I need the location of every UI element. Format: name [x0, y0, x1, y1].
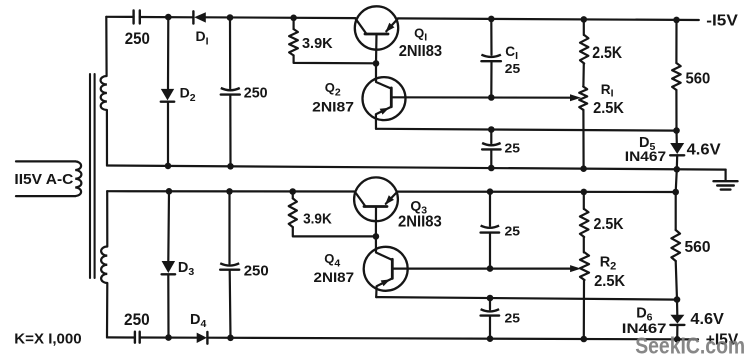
node 191-rail / 3.9K branch [289, 188, 296, 195]
svg-text:560: 560 [686, 71, 711, 88]
node 191-rail / 560 link [672, 189, 679, 196]
node ground rail / D5 [674, 166, 681, 173]
label 4.6V (D5) [687, 142, 722, 159]
svg-text:4.6V: 4.6V [690, 311, 724, 328]
wire Q4 collector to R2 wiper [392, 265, 581, 272]
primary winding lead (top) [16, 160, 75, 162]
wire 191-rail (right of Q3) [398, 191, 676, 194]
watermark SeekIC.com [635, 333, 745, 359]
wire 250-cap branch lower (lower lead) [229, 271, 232, 338]
transistor Q2 base lead [376, 63, 391, 88]
wire 25-cap lower lead [490, 150, 492, 168]
label 25 (bottom half upper) [505, 224, 521, 239]
label 560 (bottom) [685, 239, 711, 256]
label R1 [601, 82, 614, 100]
svg-text:QI: QI [414, 26, 427, 44]
node base junction Q3/Q4 [373, 233, 380, 240]
diode D2 [161, 89, 174, 102]
svg-text:SeekIC.com: SeekIC.com [635, 333, 745, 359]
transistor Q3 emitter lead [385, 192, 397, 205]
wire 25-cap lower lead (bottom half) [489, 233, 491, 268]
svg-text:2NI87: 2NI87 [314, 270, 355, 285]
label D5 [639, 135, 655, 153]
svg-text:250: 250 [244, 263, 269, 280]
node ground rail / D2 [165, 163, 172, 170]
label 1N467 (D6) [622, 321, 667, 336]
transistor Q4 emitter lead [376, 278, 392, 297]
svg-text:D2: D2 [180, 85, 196, 104]
transistor Q1 circle [355, 6, 398, 49]
node emitter rail / D6 [674, 296, 681, 303]
wire ground rail (top half) [107, 166, 726, 170]
resistor 560 (bottom) [671, 230, 680, 261]
diode D1 [193, 11, 205, 23]
transistor Q1 base lead [375, 34, 378, 63]
wire between 2.5K and R1 [582, 64, 585, 87]
svg-text:250: 250 [124, 310, 150, 329]
transistor Q2 base bar [390, 88, 393, 107]
wire D6 lower lead [676, 325, 678, 339]
wire 250-cap branch (upper) [229, 18, 231, 89]
wire secondary-bottom to bottom rail [106, 283, 109, 337]
wire R2 lower lead [583, 280, 585, 339]
label 4.6V (D6) [690, 311, 724, 328]
wire secondary-top to ground rail [106, 110, 108, 166]
transformer secondary winding (bottom) [101, 247, 107, 284]
transistor Q4 base lead [376, 236, 392, 259]
wire D3 branch (upper) [167, 191, 170, 261]
wire top rail (Q1 to -15V) [398, 18, 699, 20]
wire Q2 collector to R1 wiper [391, 94, 581, 101]
node 191-rail / 25-cap branch [487, 188, 494, 195]
wire Q4 emitter rail [376, 297, 677, 300]
wire D2 branch (lower) [167, 103, 169, 166]
node top rail / 560 branch [673, 17, 680, 24]
potentiometer R1 [579, 87, 587, 110]
ground symbol [714, 170, 738, 190]
label D6 [636, 306, 652, 324]
diode D3 [162, 261, 176, 274]
svg-text:25: 25 [505, 141, 521, 156]
wire secondary-top to top rail [105, 17, 107, 76]
label Q2 [325, 80, 341, 98]
svg-text:2.5K: 2.5K [592, 44, 622, 62]
node emitter rail / D5 [673, 127, 680, 134]
wire R1 lower lead [582, 110, 584, 169]
wire 25-cap-2 upper lead [489, 298, 491, 309]
label 1N467 (D5) [625, 149, 666, 164]
wire 25-cap upper lead [490, 130, 492, 144]
svg-text:D3: D3 [178, 260, 194, 278]
wire bottom rail (left of C) [107, 336, 135, 338]
label Q1 [414, 26, 427, 44]
wire 560 lower lead [675, 90, 677, 131]
svg-text:R2: R2 [600, 255, 617, 273]
svg-text:560: 560 [685, 239, 711, 256]
wire C1 lower lead [490, 62, 492, 98]
label D3 [178, 260, 194, 278]
svg-text:-I5V: -I5V [706, 13, 738, 30]
node emitter rail / 25-cap [488, 126, 495, 133]
svg-text:25: 25 [505, 224, 521, 239]
label 250 (filter, bottom) [244, 263, 269, 280]
transistor Q3 base lead [375, 207, 377, 237]
node top rail / C1 branch [488, 16, 495, 23]
transformer primary coil [75, 161, 81, 196]
transistor Q4 circle [364, 247, 408, 291]
svg-text:Q4: Q4 [324, 251, 340, 269]
primary winding lead (bottom) [16, 195, 75, 197]
wire top rail (C to D1) [140, 16, 194, 18]
svg-text:DI: DI [196, 28, 209, 47]
label R2 [600, 255, 617, 273]
transistor Q4 base bar [391, 259, 394, 278]
node base junction Q1/Q2 [373, 60, 380, 67]
svg-text:3.9K: 3.9K [303, 212, 332, 228]
resistor 560 (top) [672, 63, 681, 90]
node 191-rail / 250 branch [226, 188, 233, 195]
wire bottom rail (C to D3 node) [140, 336, 197, 338]
wire Q2 emitter rail [376, 129, 677, 131]
transistor Q1 emitter lead [386, 19, 398, 32]
capacitor 250 (series, bottom-left) [135, 332, 140, 343]
label 2N1183 (Q1) [399, 43, 443, 60]
resistor 3.9K (top) [289, 29, 298, 55]
label 250 (bottom-left) [124, 310, 150, 329]
resistor 3.9K (bottom) [289, 198, 297, 227]
label D4 [190, 312, 206, 330]
wire 25-cap-2 lower lead [489, 316, 491, 339]
wire 191-rail (left of Q3) [107, 190, 354, 193]
svg-text:2.5K: 2.5K [594, 273, 625, 290]
node top rail / 250 branch [227, 14, 234, 21]
svg-text:IN467: IN467 [625, 149, 666, 164]
label 2N187 (Q2) [312, 99, 354, 114]
wire 250-cap branch (lower) [229, 96, 231, 167]
node bottom rail / D3 [165, 334, 172, 341]
resistor 2.5K (upper, bottom half) [580, 209, 589, 237]
label 2.5K (R1) [593, 100, 624, 117]
transistor Q2 emitter lead [376, 107, 391, 129]
capacitor 250 (filter, top) [221, 88, 240, 95]
resistor 2.5K (upper, top half) [580, 35, 588, 64]
svg-text:K=X I,000: K=X I,000 [14, 330, 81, 347]
node top rail / 3.9K branch [290, 14, 297, 21]
label K=X 1,000 [14, 330, 81, 347]
svg-text:RI: RI [601, 82, 614, 100]
transformer core [90, 74, 95, 278]
label 250 (top-left) [125, 29, 150, 48]
wire between 2.5K and R2 [583, 237, 585, 252]
wire 2.5K upper lead (bottom) [583, 192, 585, 209]
label 3.9K (top) [302, 36, 333, 52]
svg-text:250: 250 [125, 29, 150, 48]
svg-text:4.6V: 4.6V [687, 142, 722, 159]
node ground rail / 25-cap [488, 165, 495, 172]
svg-text:II5V A-C: II5V A-C [14, 172, 73, 188]
wire 25-cap upper lead (bottom half) [489, 192, 491, 226]
wire top rail (D1 to Q1) [206, 16, 355, 19]
svg-text:2NI87: 2NI87 [312, 99, 354, 114]
svg-text:25: 25 [505, 311, 521, 326]
potentiometer R2 [580, 252, 589, 280]
svg-text:25: 25 [505, 61, 520, 76]
label 2.5K (upper, bottom half) [594, 216, 624, 233]
wire bottom rail (D4 to +15V) [207, 338, 698, 340]
wire 560 upper lead (bottom) [675, 192, 677, 230]
node collector line / 25-cap (bottom) [487, 265, 494, 272]
label +15V output [706, 332, 739, 349]
wire 3.9K top lead [293, 18, 295, 29]
node top rail / 2.5K branch [581, 16, 588, 23]
transistor Q2 circle [363, 77, 406, 120]
node bottom rail / D6 [674, 336, 681, 343]
transistor Q3 circle [354, 177, 398, 221]
wire 3.9K to base node [294, 55, 376, 63]
label 25 (top half) [505, 141, 521, 156]
wire D3 branch (lower) [167, 275, 169, 338]
wire D2 branch (upper) [167, 17, 170, 88]
transformer secondary winding (top) [101, 76, 107, 110]
wire 3.9K bottom upper lead [292, 192, 294, 199]
label 3.9K (bottom) [303, 212, 332, 228]
label 250 (filter, top) [244, 85, 268, 101]
label D2 [180, 85, 196, 104]
label 25 (bottom half lower) [505, 311, 521, 326]
svg-text:2NII83: 2NII83 [398, 213, 442, 230]
svg-text:2.5K: 2.5K [593, 100, 624, 117]
node emitter rail / 25-cap (bottom) [487, 295, 494, 302]
wire 2.5K upper lead [583, 19, 585, 35]
transistor Q1 collector lead [355, 18, 366, 34]
capacitor 250 (series, top-left) [134, 11, 140, 24]
node 191-rail / D3 branch [166, 188, 173, 195]
node ground rail / 250-cap [227, 163, 234, 170]
node R1 to ground rail [580, 165, 587, 172]
label 2N187 (Q4) [314, 270, 355, 285]
node collector line / C1 [488, 94, 495, 101]
transistor Q1 base bar [365, 33, 388, 36]
wire 560 upper lead [675, 20, 677, 63]
label D1 [196, 28, 209, 47]
wire 250-cap branch lower (upper lead) [228, 191, 230, 263]
label 2.5K (R2) [594, 273, 625, 290]
capacitor 25 (bottom half upper) [481, 226, 500, 233]
label 25 (C1) [505, 61, 520, 76]
svg-text:Q2: Q2 [325, 80, 341, 98]
svg-text:2.5K: 2.5K [594, 216, 624, 233]
capacitor C1 [481, 55, 501, 62]
capacitor 25 (top half) [482, 143, 501, 149]
label C1 [505, 44, 518, 62]
diode D4 [197, 332, 208, 344]
node top rail / D2 branch [165, 14, 172, 21]
transistor Q3 base bar [364, 205, 387, 208]
label 115V A-C [14, 172, 73, 188]
wire secondary-bottom to 191-rail [106, 191, 108, 246]
node bottom rail / R2 [581, 336, 588, 343]
wire 560 lower lead (bottom) [676, 261, 677, 300]
wire 3.9K to base node (bottom) [293, 227, 376, 236]
node bottom rail / 25-cap-2 [487, 335, 494, 342]
label -15V output [706, 13, 738, 30]
svg-text:CI: CI [505, 44, 518, 62]
label 2N1183 (Q3) [398, 213, 442, 230]
svg-text:250: 250 [244, 85, 268, 101]
svg-text:3.9K: 3.9K [302, 36, 333, 52]
transistor Q3 collector lead [355, 192, 366, 207]
wire D5 upper lead [675, 131, 677, 143]
wire D6 upper lead [676, 300, 678, 315]
label 2.5K (upper, top half) [592, 44, 622, 62]
label Q3 [410, 197, 427, 216]
svg-text:2NII83: 2NII83 [399, 43, 443, 60]
svg-text:D4: D4 [190, 312, 206, 330]
node bottom rail / 250-cap [227, 335, 234, 342]
zener diode D6 [670, 315, 684, 325]
wire ground to lower rail link [676, 169, 677, 192]
wire C1 upper lead [490, 19, 492, 55]
capacitor 25 (bottom half lower) [481, 309, 500, 315]
wire D5 lower lead [676, 156, 679, 170]
label 560 (top) [686, 71, 711, 88]
wire top rail (left of C) [106, 16, 133, 18]
node 191-rail / 2.5K branch [581, 189, 588, 196]
zener diode D5 [670, 143, 684, 155]
label Q4 [324, 251, 340, 269]
capacitor 250 (filter, bottom) [220, 263, 239, 269]
